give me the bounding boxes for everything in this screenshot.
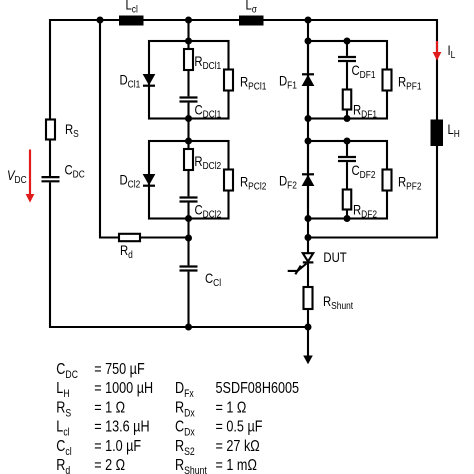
wire left branch lower and bottom bus — [50, 182, 308, 327]
wire main right branch upper — [307, 20, 309, 254]
arrow IL — [433, 41, 456, 61]
resistor RS — [46, 120, 79, 140]
inductor Lsigma — [239, 0, 264, 26]
svg-text:DUT: DUT — [323, 250, 347, 265]
wire clamp center middle — [187, 103, 189, 197]
resistor RPCl1 — [224, 70, 266, 92]
resistor RDF2 — [343, 190, 377, 220]
resistor RDCl1 — [184, 49, 221, 71]
svg-text:5SDF08H6005: 5SDF08H6005 — [216, 380, 300, 398]
resistor RDF1 — [343, 90, 377, 120]
svg-text:= 13.6 µH: = 13.6 µH — [94, 418, 149, 436]
snubber cell 1 outline — [308, 41, 387, 119]
svg-text:= 2 Ω: = 2 Ω — [94, 457, 125, 474]
wire main right branch lower — [307, 263, 309, 328]
wire snubber RC branch 2b — [346, 162, 348, 218]
snubber cell 2 outline — [308, 141, 387, 219]
wire snubber RC branch 1a — [346, 41, 348, 56]
svg-text:= 1 Ω: = 1 Ω — [94, 399, 125, 417]
diode DCl1 — [120, 73, 156, 90]
resistor RPF1 — [383, 70, 422, 92]
wire top bus and outer loop — [50, 20, 437, 238]
resistor RShunt — [304, 287, 354, 311]
resistor RPF2 — [383, 170, 422, 192]
value table — [56, 361, 299, 474]
wire clamp center bottom — [187, 272, 189, 327]
wire Rd branch — [100, 20, 189, 238]
wire snubber RC branch 1b — [346, 62, 348, 118]
wire clamp center upper — [187, 20, 189, 96]
svg-text:= 1000 µH: = 1000 µH — [94, 380, 153, 398]
arrow VDC — [7, 150, 34, 203]
clamp cell 1 outline — [149, 41, 229, 119]
resistor Rd — [119, 234, 140, 260]
ground — [303, 327, 313, 364]
wire clamp center lower — [187, 203, 189, 266]
svg-text:= 1.0 µF: = 1.0 µF — [94, 437, 141, 455]
clamp cell 2 outline — [149, 141, 229, 219]
capacitor CDCl2 — [180, 198, 222, 220]
diode DF2 — [279, 174, 314, 191]
capacitor CCl — [180, 267, 222, 289]
inductor LH — [431, 120, 460, 147]
resistor RPCl2 — [224, 170, 266, 192]
svg-text:= 27 kΩ: = 27 kΩ — [216, 437, 260, 455]
diode DF1 — [279, 74, 314, 91]
wire snubber RC branch 2a — [346, 141, 348, 156]
capacitor CDF2 — [338, 157, 376, 180]
resistor RDCl2 — [184, 149, 221, 171]
thyristor DUT — [288, 250, 347, 274]
svg-text:= 1 mΩ: = 1 mΩ — [216, 457, 258, 474]
diode DCl2 — [120, 173, 156, 190]
svg-text:= 750 µF: = 750 µF — [94, 361, 145, 379]
svg-text:= 1 Ω: = 1 Ω — [216, 399, 247, 417]
capacitor CDCl1 — [180, 98, 222, 120]
inductor Lcl — [119, 0, 144, 26]
capacitor CDC — [42, 163, 86, 182]
svg-text:= 0.5 µF: = 0.5 µF — [216, 418, 263, 436]
capacitor CDF1 — [338, 57, 376, 80]
